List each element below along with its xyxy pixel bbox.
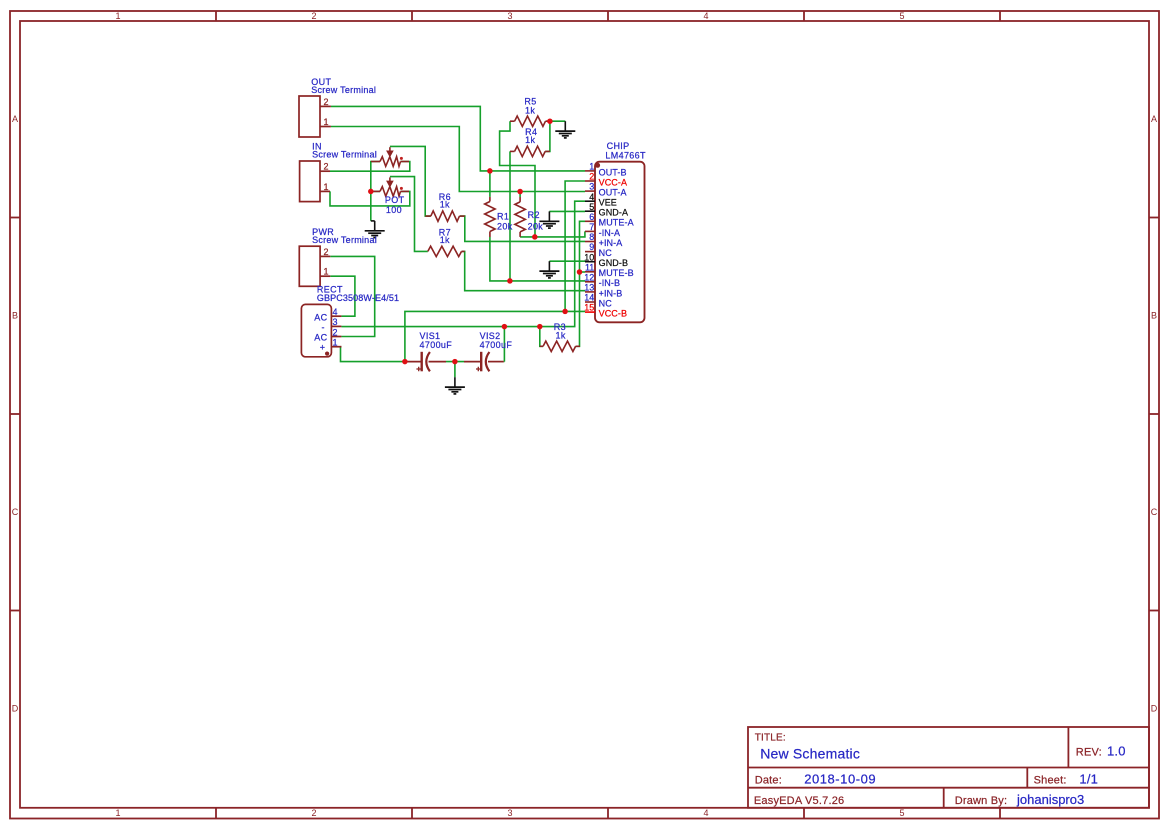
svg-text:VCC-B: VCC-B — [599, 309, 628, 319]
junction — [368, 189, 374, 195]
svg-text:1.0: 1.0 — [1107, 743, 1126, 758]
junction — [532, 234, 538, 240]
svg-text:GBPC3508W-E4/51: GBPC3508W-E4/51 — [317, 293, 399, 303]
svg-text:1: 1 — [324, 182, 329, 192]
svg-text:3: 3 — [507, 808, 512, 818]
svg-text:2: 2 — [589, 172, 594, 182]
svg-text:5: 5 — [899, 808, 904, 818]
svg-text:-IN-B: -IN-B — [599, 278, 621, 288]
svg-text:4: 4 — [333, 307, 338, 317]
wire R4 left down to -IN-B net — [509, 151, 511, 281]
svg-text:1/1: 1/1 — [1079, 771, 1098, 786]
svg-text:12: 12 — [584, 272, 594, 282]
wire R2 top to OUT-A net — [519, 192, 521, 198]
svg-text:+IN-A: +IN-A — [599, 238, 623, 248]
junction — [507, 278, 513, 284]
svg-text:Sheet:: Sheet: — [1034, 774, 1067, 786]
svg-text:4: 4 — [703, 11, 708, 21]
svg-text:New Schematic: New Schematic — [760, 746, 860, 762]
svg-text:REV:: REV: — [1076, 746, 1102, 758]
wire U1 pin2 VCC-A down to VCC rail — [565, 181, 585, 311]
connector IN screw terminal — [300, 161, 330, 202]
svg-text:2: 2 — [324, 97, 329, 107]
wire POT1 wiper to R6 left — [390, 146, 431, 216]
pin 13 +IN-B — [585, 291, 595, 293]
wire VCC rail to U1 pin15 VCC-B — [405, 311, 585, 361]
svg-text:LM4766T: LM4766T — [605, 151, 646, 161]
svg-text:A: A — [12, 114, 18, 124]
svg-text:TITLE:: TITLE: — [755, 733, 786, 744]
svg-text:AC: AC — [314, 312, 327, 322]
svg-text:A: A — [1151, 114, 1157, 124]
wire VIS1 to center ground node — [446, 361, 464, 363]
svg-text:8: 8 — [589, 232, 594, 242]
wire OUT.2 to U1 pin1 OUT-B — [331, 106, 585, 170]
title block — [748, 727, 1149, 808]
svg-text:NC: NC — [599, 248, 613, 258]
potentiometer POT2 lower with labels — [371, 177, 409, 196]
wire POT1 left / POT2 left to ground — [371, 162, 380, 221]
svg-text:MUTE-B: MUTE-B — [599, 268, 634, 278]
svg-text:Screw Terminal: Screw Terminal — [312, 235, 377, 245]
resistor R2 20k vertical — [515, 197, 525, 237]
svg-text:1k: 1k — [525, 105, 535, 115]
potentiometer POT1 upper — [371, 147, 409, 166]
wire R2 bottom to U1 pin7 -IN-A — [520, 231, 585, 237]
resistor R1 20k vertical — [485, 197, 495, 237]
svg-text:5: 5 — [589, 202, 594, 212]
junction — [537, 324, 543, 330]
wire U1 pin5 GND-A to ground — [549, 210, 585, 212]
wire PWR.1 to RECT.4 AC — [330, 276, 355, 316]
pin 7 -IN-A — [585, 230, 595, 232]
wire R5 left to -IN-A net — [500, 121, 535, 237]
svg-text:R1: R1 — [497, 211, 509, 221]
pin 4 VEE — [585, 200, 595, 202]
pin 15 VCC-B — [585, 311, 595, 313]
junction — [562, 309, 568, 315]
svg-text:-: - — [322, 322, 325, 332]
svg-text:3: 3 — [333, 317, 338, 327]
wire R6 right to U1 pin8 +IN-A — [460, 216, 586, 241]
wire VEE rail RECT.3 to U1 pin4 VEE — [341, 201, 585, 326]
svg-text:D: D — [12, 704, 19, 714]
junction — [402, 359, 408, 365]
wire PWR.2 to RECT.2 AC — [330, 256, 374, 336]
wire R1 top to OUT-B net — [489, 171, 491, 197]
pin 14 NC — [585, 301, 595, 303]
svg-text:11: 11 — [585, 262, 594, 272]
wire U1 pin6 MUTE-A / pin11 MUTE-B to R3 right — [576, 221, 585, 346]
wire U1 pin10 GND-B to ground — [549, 260, 585, 262]
svg-text:1: 1 — [324, 267, 329, 277]
svg-text:VCC-A: VCC-A — [599, 177, 628, 187]
wire POT2 wiper to R7 left — [390, 177, 428, 252]
svg-text:GND-A: GND-A — [599, 208, 629, 218]
svg-text:OUT-A: OUT-A — [599, 188, 627, 198]
svg-text:2: 2 — [311, 11, 316, 21]
svg-text:1: 1 — [589, 162, 594, 172]
junction — [452, 359, 458, 365]
ground pot/input — [371, 220, 375, 222]
svg-text:VEE: VEE — [599, 198, 617, 208]
op-amp chip U1 LM4766T — [595, 162, 645, 323]
resistor R4 1k — [510, 146, 550, 156]
svg-text:R2: R2 — [528, 210, 540, 220]
wire R1 bottom to U1 pin12 -IN-B — [490, 237, 585, 281]
connector PWR screw terminal — [299, 246, 330, 286]
svg-text:Screw Terminal: Screw Terminal — [312, 150, 377, 160]
svg-text:+: + — [320, 343, 326, 353]
svg-text:4700uF: 4700uF — [420, 340, 453, 350]
svg-text:AC: AC — [314, 333, 327, 343]
svg-text:20k: 20k — [497, 221, 513, 231]
wire center node to ground — [454, 362, 456, 378]
svg-text:Date:: Date: — [755, 774, 782, 786]
wire VIS2 right to VEE rail — [503, 327, 506, 362]
capacitor VIS2 4700uF polarized — [464, 352, 504, 372]
svg-text:NC: NC — [599, 298, 613, 308]
svg-text:Screw Terminal: Screw Terminal — [311, 85, 376, 95]
svg-text:3: 3 — [589, 182, 594, 192]
wire RECT.1 + output to VCC rail and VIS1 — [341, 347, 405, 362]
pin 6 MUTE-A — [585, 220, 595, 222]
svg-text:1k: 1k — [556, 330, 566, 340]
wire R5 right to ground and R4 right — [546, 120, 566, 122]
svg-text:1: 1 — [333, 338, 338, 348]
ground capacitor center — [454, 377, 456, 387]
pin 12 -IN-B — [585, 281, 595, 283]
wire R7 right to U1 pin13 +IN-B — [462, 251, 586, 290]
ground GND-A pin5 — [548, 211, 550, 221]
svg-text:9: 9 — [589, 242, 594, 252]
svg-text:EasyEDA V5.7.26: EasyEDA V5.7.26 — [754, 795, 844, 807]
junction — [487, 168, 493, 174]
resistor R7 1k — [428, 246, 465, 256]
svg-text:100: 100 — [386, 205, 402, 215]
svg-text:4: 4 — [589, 192, 594, 202]
ground GND-B pin10 — [548, 261, 550, 271]
pin 10 GND-B — [585, 261, 595, 263]
rectifier RECT GBPC3508W-E4/51 — [301, 304, 341, 356]
svg-text:C: C — [1151, 507, 1158, 517]
resistor R5 1k — [510, 116, 550, 126]
pin 9 NC — [585, 251, 595, 253]
svg-text:johanispro3: johanispro3 — [1016, 792, 1084, 807]
pin 1 OUT-B — [585, 170, 595, 172]
svg-text:4: 4 — [703, 808, 708, 818]
svg-text:7: 7 — [589, 222, 594, 232]
wire OUT.1 to U1 pin3 OUT-A — [331, 127, 585, 192]
svg-text:D: D — [1151, 704, 1158, 714]
resistor R6 1k — [425, 211, 465, 221]
junction — [502, 324, 508, 330]
svg-text:20k: 20k — [528, 221, 544, 231]
svg-text:13: 13 — [584, 283, 594, 293]
junction — [517, 189, 523, 195]
svg-text:Drawn By:: Drawn By: — [955, 795, 1008, 807]
junction — [577, 269, 583, 275]
junction — [547, 118, 553, 124]
pin 8 +IN-A — [585, 241, 595, 243]
resistor R3 1k — [540, 341, 580, 351]
svg-text:C: C — [12, 507, 19, 517]
svg-text:1k: 1k — [525, 135, 535, 145]
svg-text:15: 15 — [584, 303, 594, 313]
svg-text:1: 1 — [324, 117, 329, 127]
svg-text:GND-B: GND-B — [599, 258, 629, 268]
svg-text:2018-10-09: 2018-10-09 — [804, 771, 876, 786]
svg-text:B: B — [12, 311, 18, 321]
svg-text:1: 1 — [115, 808, 120, 818]
pin 5 GND-A — [585, 210, 595, 212]
wire IN.2 to POT1 right — [330, 162, 410, 172]
svg-text:POT: POT — [385, 195, 405, 205]
svg-text:1k: 1k — [440, 200, 450, 210]
svg-text:4700uF: 4700uF — [480, 340, 513, 350]
svg-text:6: 6 — [589, 212, 594, 222]
svg-text:5: 5 — [899, 11, 904, 21]
capacitor VIS1 4700uF polarized — [405, 352, 446, 372]
wire IN.1 to POT2 right — [330, 191, 410, 206]
svg-text:CHIP: CHIP — [607, 141, 630, 151]
pin 3 OUT-A — [585, 190, 595, 192]
svg-text:-IN-A: -IN-A — [599, 228, 621, 238]
svg-text:2: 2 — [324, 247, 329, 257]
svg-text:10: 10 — [584, 252, 594, 262]
svg-text:1k: 1k — [440, 235, 450, 245]
svg-text:14: 14 — [584, 293, 594, 303]
svg-text:1: 1 — [115, 11, 120, 21]
svg-text:3: 3 — [507, 11, 512, 21]
pin 11 MUTE-B — [585, 271, 595, 273]
svg-text:MUTE-A: MUTE-A — [599, 218, 634, 228]
wire R3 left to VEE rail — [540, 327, 543, 347]
pin 2 VCC-A — [585, 180, 595, 182]
svg-text:2: 2 — [333, 327, 338, 337]
svg-text:B: B — [1151, 311, 1157, 321]
svg-text:2: 2 — [324, 162, 329, 172]
connector OUT screw terminal — [299, 96, 331, 137]
svg-text:OUT-B: OUT-B — [599, 167, 627, 177]
ground R5 — [564, 121, 566, 131]
svg-text:2: 2 — [311, 808, 316, 818]
svg-text:+IN-B: +IN-B — [599, 288, 623, 298]
